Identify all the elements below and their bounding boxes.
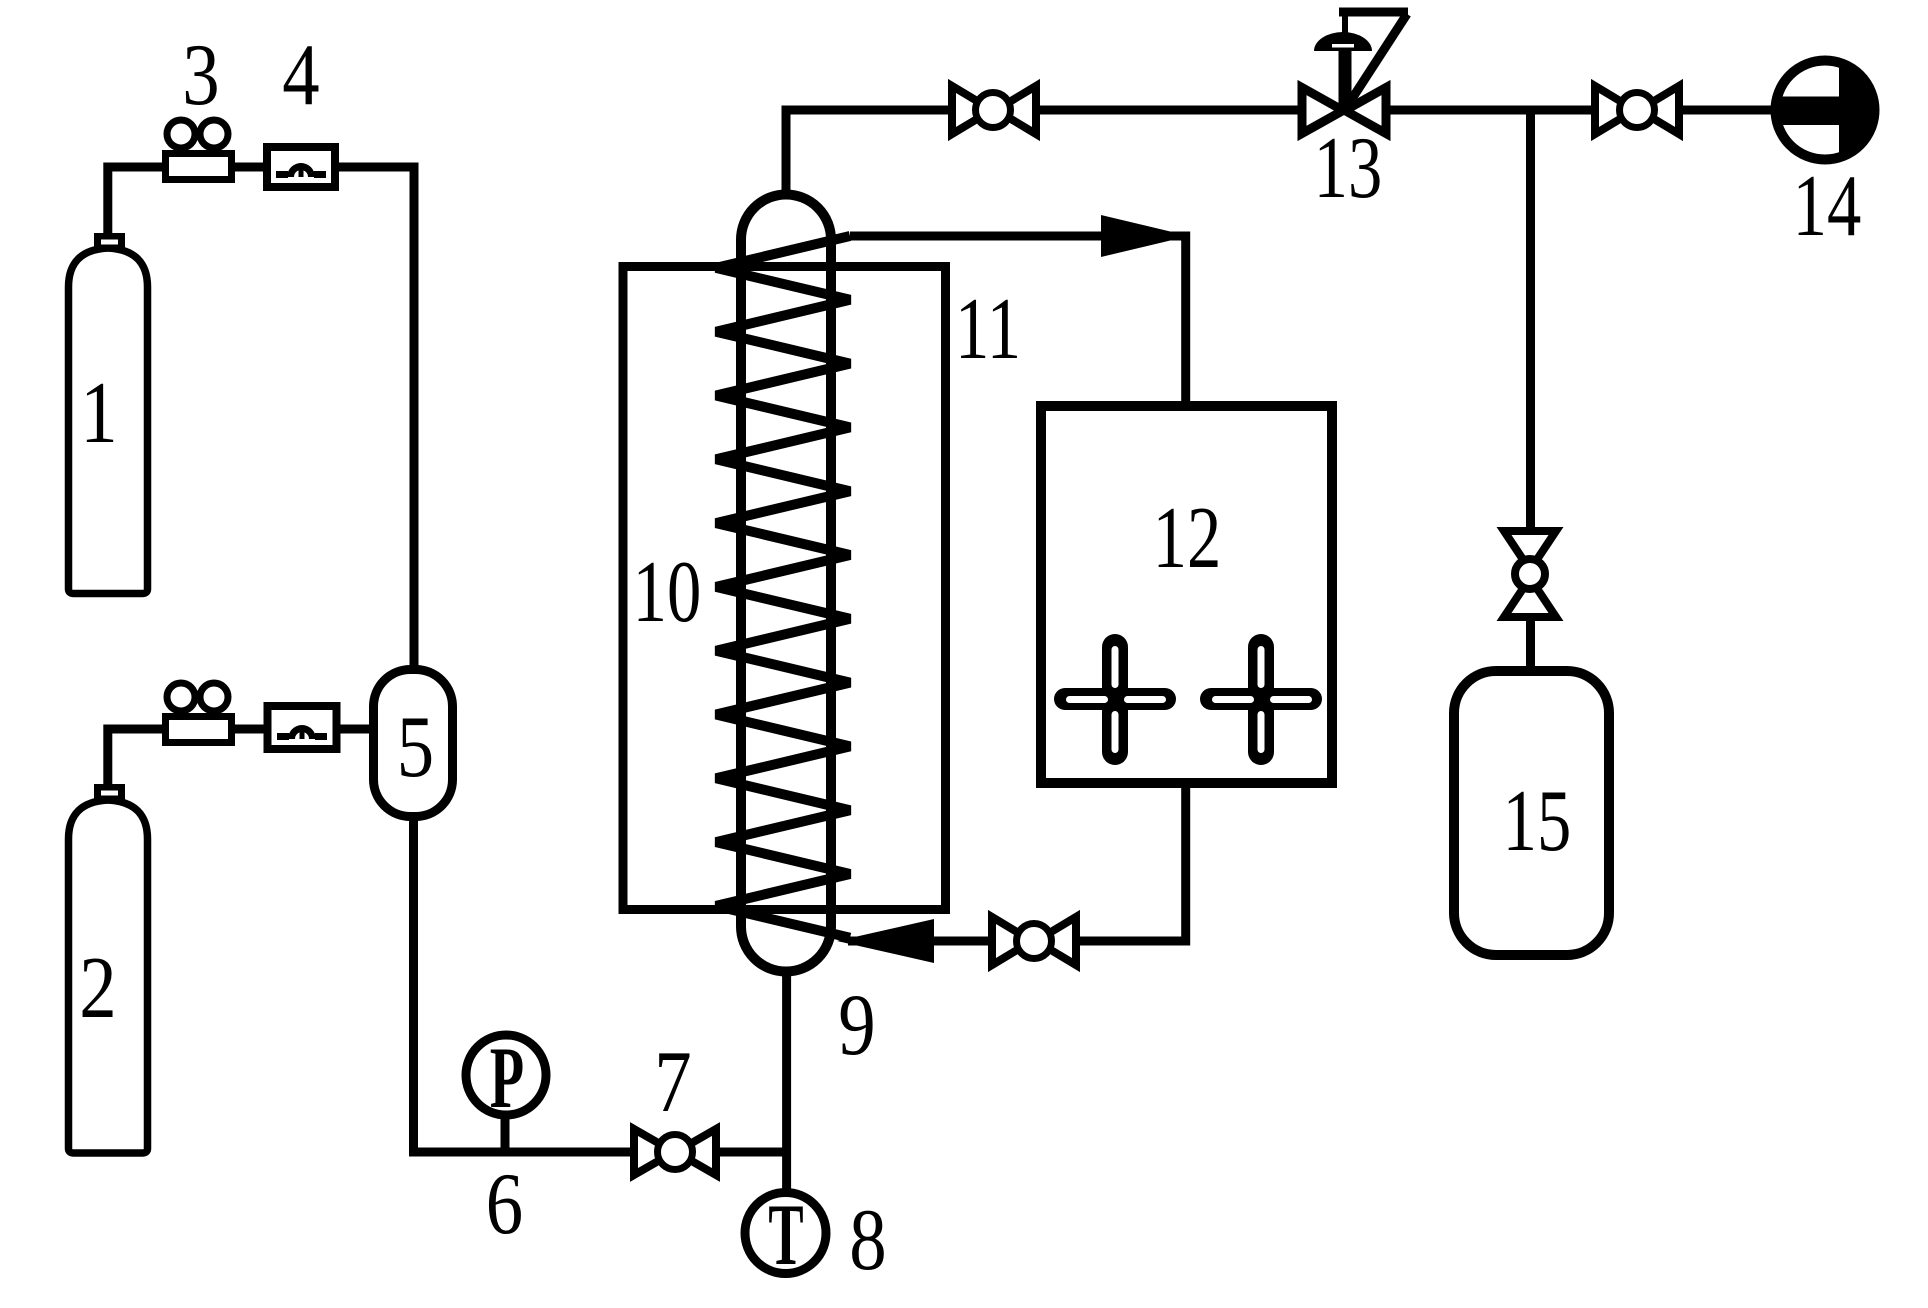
svg-text:3: 3 [182, 25, 219, 123]
svg-text:11: 11 [955, 281, 1021, 378]
svg-text:P: P [490, 1028, 524, 1126]
svg-text:15: 15 [1503, 773, 1572, 870]
svg-text:7: 7 [654, 1032, 691, 1130]
svg-text:4: 4 [282, 25, 319, 123]
svg-text:8: 8 [849, 1190, 886, 1288]
svg-text:2: 2 [79, 938, 116, 1036]
svg-text:13: 13 [1314, 120, 1383, 217]
svg-text:1: 1 [80, 363, 117, 461]
svg-text:T: T [768, 1185, 803, 1283]
svg-text:10: 10 [633, 544, 702, 641]
svg-text:6: 6 [486, 1154, 523, 1252]
svg-text:9: 9 [838, 975, 875, 1073]
svg-text:5: 5 [397, 697, 434, 795]
svg-text:14: 14 [1793, 158, 1862, 255]
svg-text:12: 12 [1153, 490, 1222, 587]
